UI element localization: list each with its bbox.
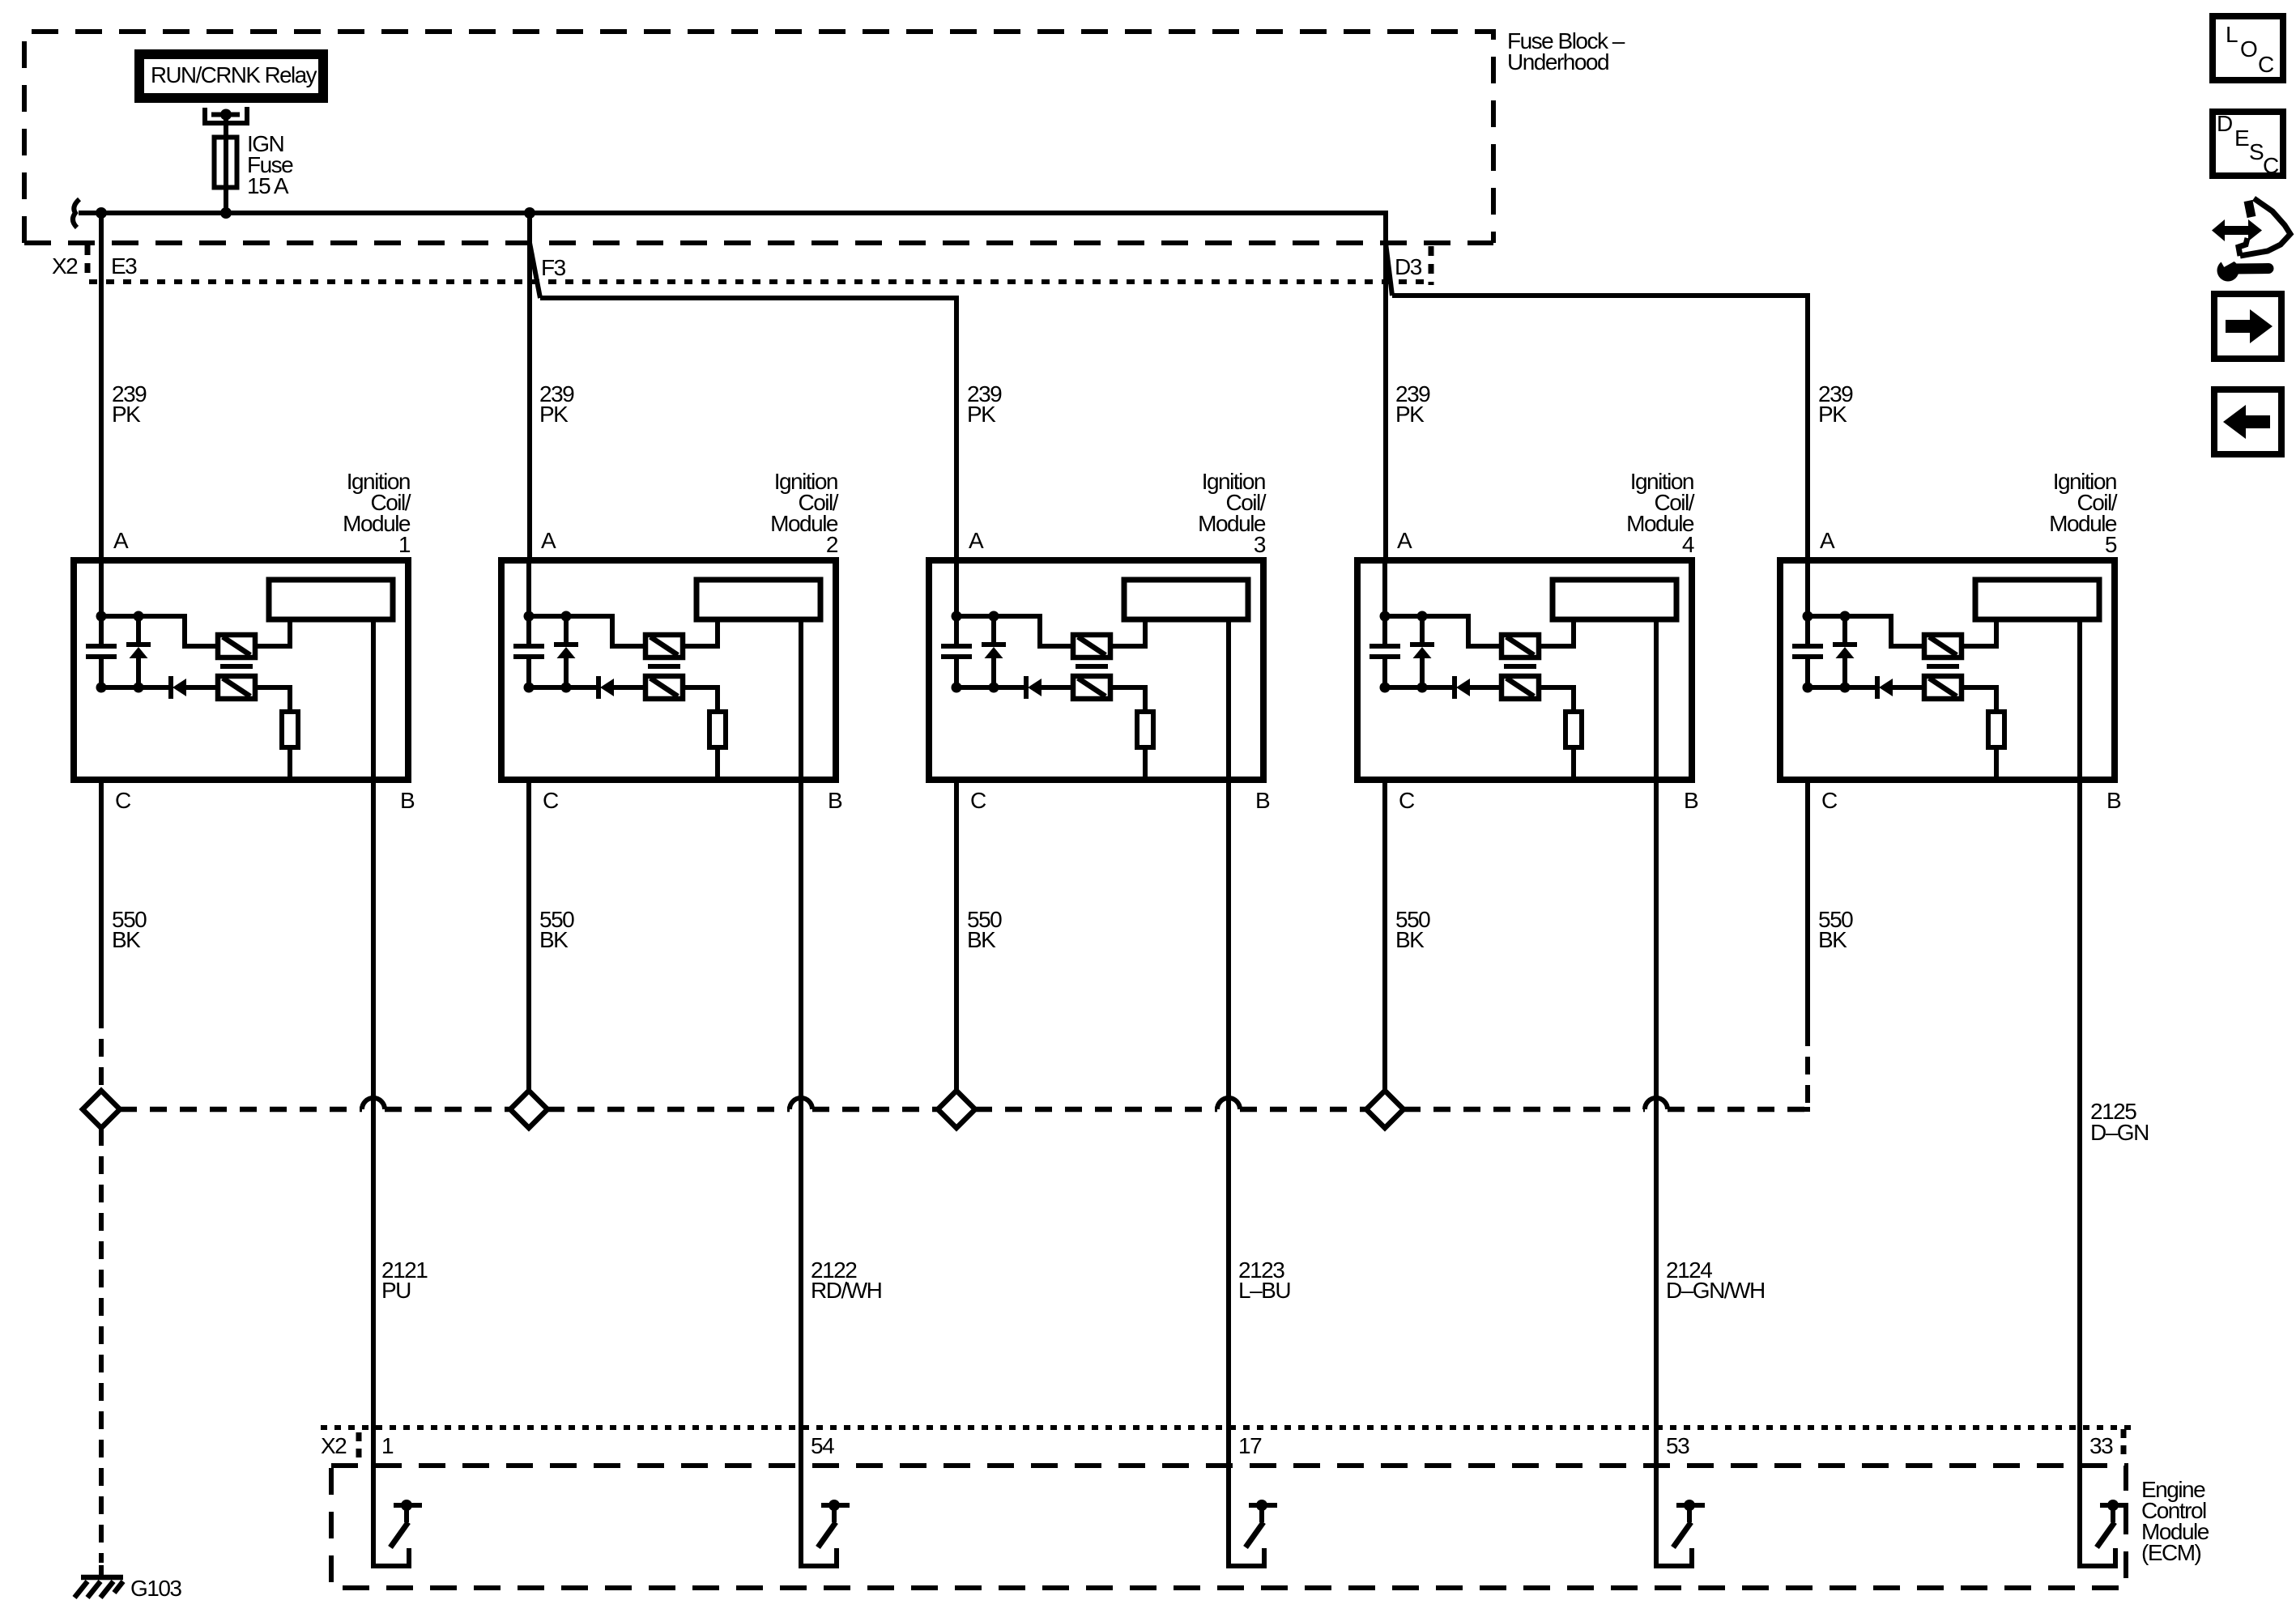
splice S4 diamond	[1366, 1091, 1404, 1128]
connector X2 strip: dotted boundary	[89, 279, 1429, 284]
svg-text:(ECM): (ECM)	[2141, 1540, 2201, 1565]
wire ground bus (dashed)	[120, 1107, 1808, 1113]
ignition coil/module 1	[74, 560, 408, 780]
svg-text:E: E	[2234, 126, 2250, 151]
wire end hook	[73, 199, 79, 228]
engine control module (ECM) dashed box	[331, 1466, 2126, 1588]
transistor driver switch ECM pin 54	[801, 1500, 850, 1566]
relay contact terminal symbol	[205, 107, 247, 123]
svg-text:G103: G103	[130, 1576, 181, 1601]
wire relay to fuse	[224, 115, 228, 138]
svg-text:B: B	[1255, 788, 1270, 813]
svg-text:Underhood: Underhood	[1507, 49, 1608, 74]
wire module 1 pin C ground lead (dashed part)	[99, 1011, 104, 1091]
svg-text:PK: PK	[967, 402, 996, 427]
svg-text:3: 3	[1254, 532, 1266, 557]
connector X2 (ECM) separator left	[356, 1432, 362, 1458]
wire module 4 pin C ground lead	[1382, 780, 1387, 1091]
svg-text:O: O	[2240, 36, 2258, 62]
svg-text:RUN/CRNK Relay: RUN/CRNK Relay	[151, 62, 317, 87]
wire D3 branch to module 5 pin A	[1392, 296, 1808, 560]
svg-text:PK: PK	[1818, 402, 1847, 427]
svg-text:5: 5	[2105, 532, 2117, 557]
wire hop over B wire 4	[1645, 1098, 1668, 1109]
svg-text:A: A	[1820, 528, 1835, 553]
svg-text:BK: BK	[112, 927, 141, 952]
svg-text:PK: PK	[539, 402, 569, 427]
svg-text:A: A	[113, 528, 129, 553]
connector X2 (ECM) separator right	[2121, 1429, 2127, 1462]
wire module 3 pin B to ECM pin 17	[1226, 619, 1231, 1505]
svg-text:X2: X2	[321, 1433, 347, 1458]
svg-text:D–GN: D–GN	[2090, 1120, 2149, 1145]
svg-text:53: 53	[1666, 1433, 1689, 1458]
wire module 2 pin B to ECM pin 54	[799, 619, 803, 1505]
fuse block - underhood dashed box	[24, 32, 1493, 243]
wire main feed bus	[79, 213, 1386, 560]
ignition coil/module 2	[501, 560, 836, 780]
splice S2 diamond	[510, 1091, 547, 1128]
wire module 1 pin C ground lead (solid part)	[99, 780, 104, 1011]
splice S3 diamond	[938, 1091, 975, 1128]
wire hop over B wire 1	[362, 1098, 385, 1109]
transistor driver switch ECM pin 53	[1656, 1500, 1705, 1566]
svg-text:F3: F3	[541, 255, 566, 280]
relay K1 RUN/CRNK Relay box	[139, 54, 323, 98]
icon DESC box	[2213, 111, 2283, 178]
svg-text:C: C	[543, 788, 559, 813]
svg-text:BK: BK	[967, 927, 996, 952]
fuse F1 IGN Fuse 15 A	[215, 138, 237, 188]
connector X2 separator right of D3	[1429, 246, 1434, 285]
splice S1 diamond	[83, 1091, 120, 1128]
wire module 4 pin B to ECM pin 53	[1654, 619, 1659, 1505]
svg-text:4: 4	[1682, 532, 1694, 557]
ignition coil/module 5	[1780, 560, 2115, 780]
wire module 5 pin B to ECM pin 33	[2077, 619, 2082, 1505]
svg-text:PK: PK	[112, 402, 141, 427]
ignition coil/module 3	[929, 560, 1263, 780]
wire module 2 pin C ground lead	[526, 780, 531, 1091]
svg-text:C: C	[1399, 788, 1415, 813]
svg-text:15 A: 15 A	[247, 173, 289, 198]
svg-text:PK: PK	[1395, 402, 1425, 427]
node: relay terminal dot	[220, 109, 232, 121]
transistor driver switch ECM pin 33	[2080, 1500, 2128, 1566]
svg-text:54: 54	[811, 1433, 834, 1458]
svg-text:D3: D3	[1395, 254, 1422, 279]
wire F3 to module 2 pin A	[527, 213, 532, 560]
svg-text:C: C	[1821, 788, 1838, 813]
transistor driver switch ECM pin 17	[1229, 1500, 1277, 1566]
svg-text:B: B	[1684, 788, 1698, 813]
svg-text:E3: E3	[111, 253, 137, 279]
ground G103	[75, 1565, 181, 1601]
wire module 1 pin B to ECM pin 1	[371, 619, 376, 1505]
svg-text:PU: PU	[381, 1278, 411, 1303]
svg-text:C: C	[115, 788, 131, 813]
svg-text:C: C	[970, 788, 986, 813]
icon back arrow box	[2214, 389, 2281, 454]
svg-text:A: A	[1397, 528, 1412, 553]
svg-text:BK: BK	[1818, 927, 1847, 952]
node: splice at fuse	[220, 207, 232, 219]
svg-text:L–BU: L–BU	[1238, 1278, 1290, 1303]
wire module 3 pin C ground lead	[954, 780, 959, 1091]
svg-text:D–GN/WH: D–GN/WH	[1666, 1278, 1765, 1303]
wire module 5 pin C ground lead (dashed part)	[1798, 1028, 1808, 1109]
wire F3 branch diagonal	[530, 243, 540, 298]
node: splice at E3 wire	[96, 207, 107, 219]
svg-text:RD/WH: RD/WH	[811, 1278, 881, 1303]
icon harness routing (arrow and wrench)	[2212, 198, 2290, 282]
svg-text:D: D	[2217, 111, 2233, 136]
svg-text:2: 2	[826, 532, 838, 557]
wire module 5 pin C ground lead (solid part)	[1805, 780, 1810, 1028]
wire F3 branch to module 3 pin A	[540, 298, 956, 560]
wire hop over B wire 2	[790, 1098, 812, 1109]
wire through fuse	[224, 138, 228, 213]
transistor driver switch ECM pin 1	[373, 1500, 422, 1566]
svg-text:S: S	[2249, 139, 2264, 164]
icon LOC box	[2213, 16, 2283, 80]
svg-text:1: 1	[398, 532, 411, 557]
svg-text:B: B	[400, 788, 415, 813]
svg-text:BK: BK	[1395, 927, 1425, 952]
ignition coil/module 4	[1357, 560, 1692, 780]
svg-text:X2: X2	[52, 253, 78, 279]
svg-text:BK: BK	[539, 927, 569, 952]
svg-text:17: 17	[1238, 1433, 1262, 1458]
svg-text:B: B	[2106, 788, 2121, 813]
node: splice at F3 wire	[524, 207, 535, 219]
wire E3 to module 1 pin A	[99, 213, 104, 560]
connector X2 separator left	[85, 245, 91, 281]
wire hop over B wire 3	[1217, 1098, 1240, 1109]
svg-text:A: A	[541, 528, 556, 553]
svg-text:L: L	[2226, 22, 2238, 47]
svg-text:B: B	[828, 788, 842, 813]
svg-text:33: 33	[2089, 1433, 2113, 1458]
connector X2 (ECM) dotted boundary	[321, 1425, 2136, 1430]
svg-text:C: C	[2258, 52, 2274, 77]
icon forward arrow box	[2214, 294, 2281, 359]
svg-text:C: C	[2263, 153, 2279, 178]
connector X2 strip: dashed boundary	[24, 240, 1493, 245]
svg-text:A: A	[969, 528, 984, 553]
svg-text:1: 1	[381, 1433, 394, 1458]
wire ground lead to G103 (dashed)	[99, 1128, 104, 1563]
wire D3 branch diagonal	[1386, 243, 1392, 296]
